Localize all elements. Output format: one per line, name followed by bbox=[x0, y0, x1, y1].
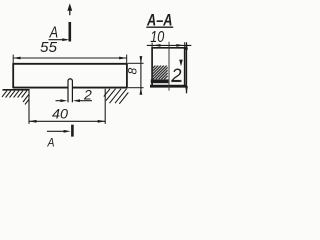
svg-text:2: 2 bbox=[171, 65, 182, 85]
svg-text:A: A bbox=[47, 135, 55, 149]
svg-text:40: 40 bbox=[52, 105, 68, 121]
svg-text:10: 10 bbox=[150, 29, 164, 46]
svg-text:A: A bbox=[49, 25, 58, 42]
svg-text:A–A: A–A bbox=[146, 10, 172, 29]
svg-text:2: 2 bbox=[83, 86, 92, 102]
svg-text:55: 55 bbox=[40, 40, 58, 56]
svg-text:8: 8 bbox=[126, 68, 140, 75]
